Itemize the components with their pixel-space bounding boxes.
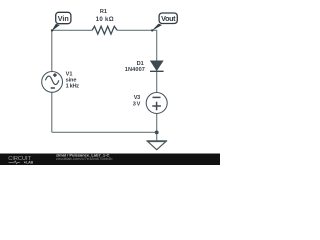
svg-text:LAB: LAB <box>26 161 33 165</box>
svg-text:V3: V3 <box>134 95 140 101</box>
wire top-right segment <box>117 29 157 31</box>
wire top-left segment <box>52 29 92 31</box>
junction node <box>155 131 159 135</box>
watermark bar <box>0 154 220 166</box>
voltage source V1 <box>42 72 63 93</box>
svg-text:D1: D1 <box>137 61 144 67</box>
wire right lower <box>156 114 158 141</box>
wire bottom <box>52 131 157 133</box>
svg-text:circuitlab.com/c/7e38nd/76bb4b: circuitlab.com/c/7e38nd/76bb4b <box>56 156 113 161</box>
ground <box>146 141 167 150</box>
svg-text:3 V: 3 V <box>133 102 141 108</box>
wire left upper <box>51 30 53 72</box>
svg-text:1N4007: 1N4007 <box>125 67 145 73</box>
svg-text:10 kΩ: 10 kΩ <box>96 16 114 23</box>
node flag Vin <box>51 12 71 31</box>
svg-text:Vout: Vout <box>161 14 176 23</box>
logo LAB block <box>24 162 26 164</box>
svg-text:Vin: Vin <box>58 14 69 23</box>
diode D1 <box>150 61 164 72</box>
wire right upper <box>156 30 158 61</box>
resistor R1 <box>92 26 117 34</box>
svg-text:1 kHz: 1 kHz <box>66 84 80 90</box>
logo waveform <box>9 161 20 164</box>
svg-text:R1: R1 <box>100 9 107 15</box>
wire left lower <box>51 92 53 132</box>
node flag Vout <box>151 13 177 32</box>
wire right middle <box>156 71 158 92</box>
voltage source V3 <box>146 93 167 114</box>
